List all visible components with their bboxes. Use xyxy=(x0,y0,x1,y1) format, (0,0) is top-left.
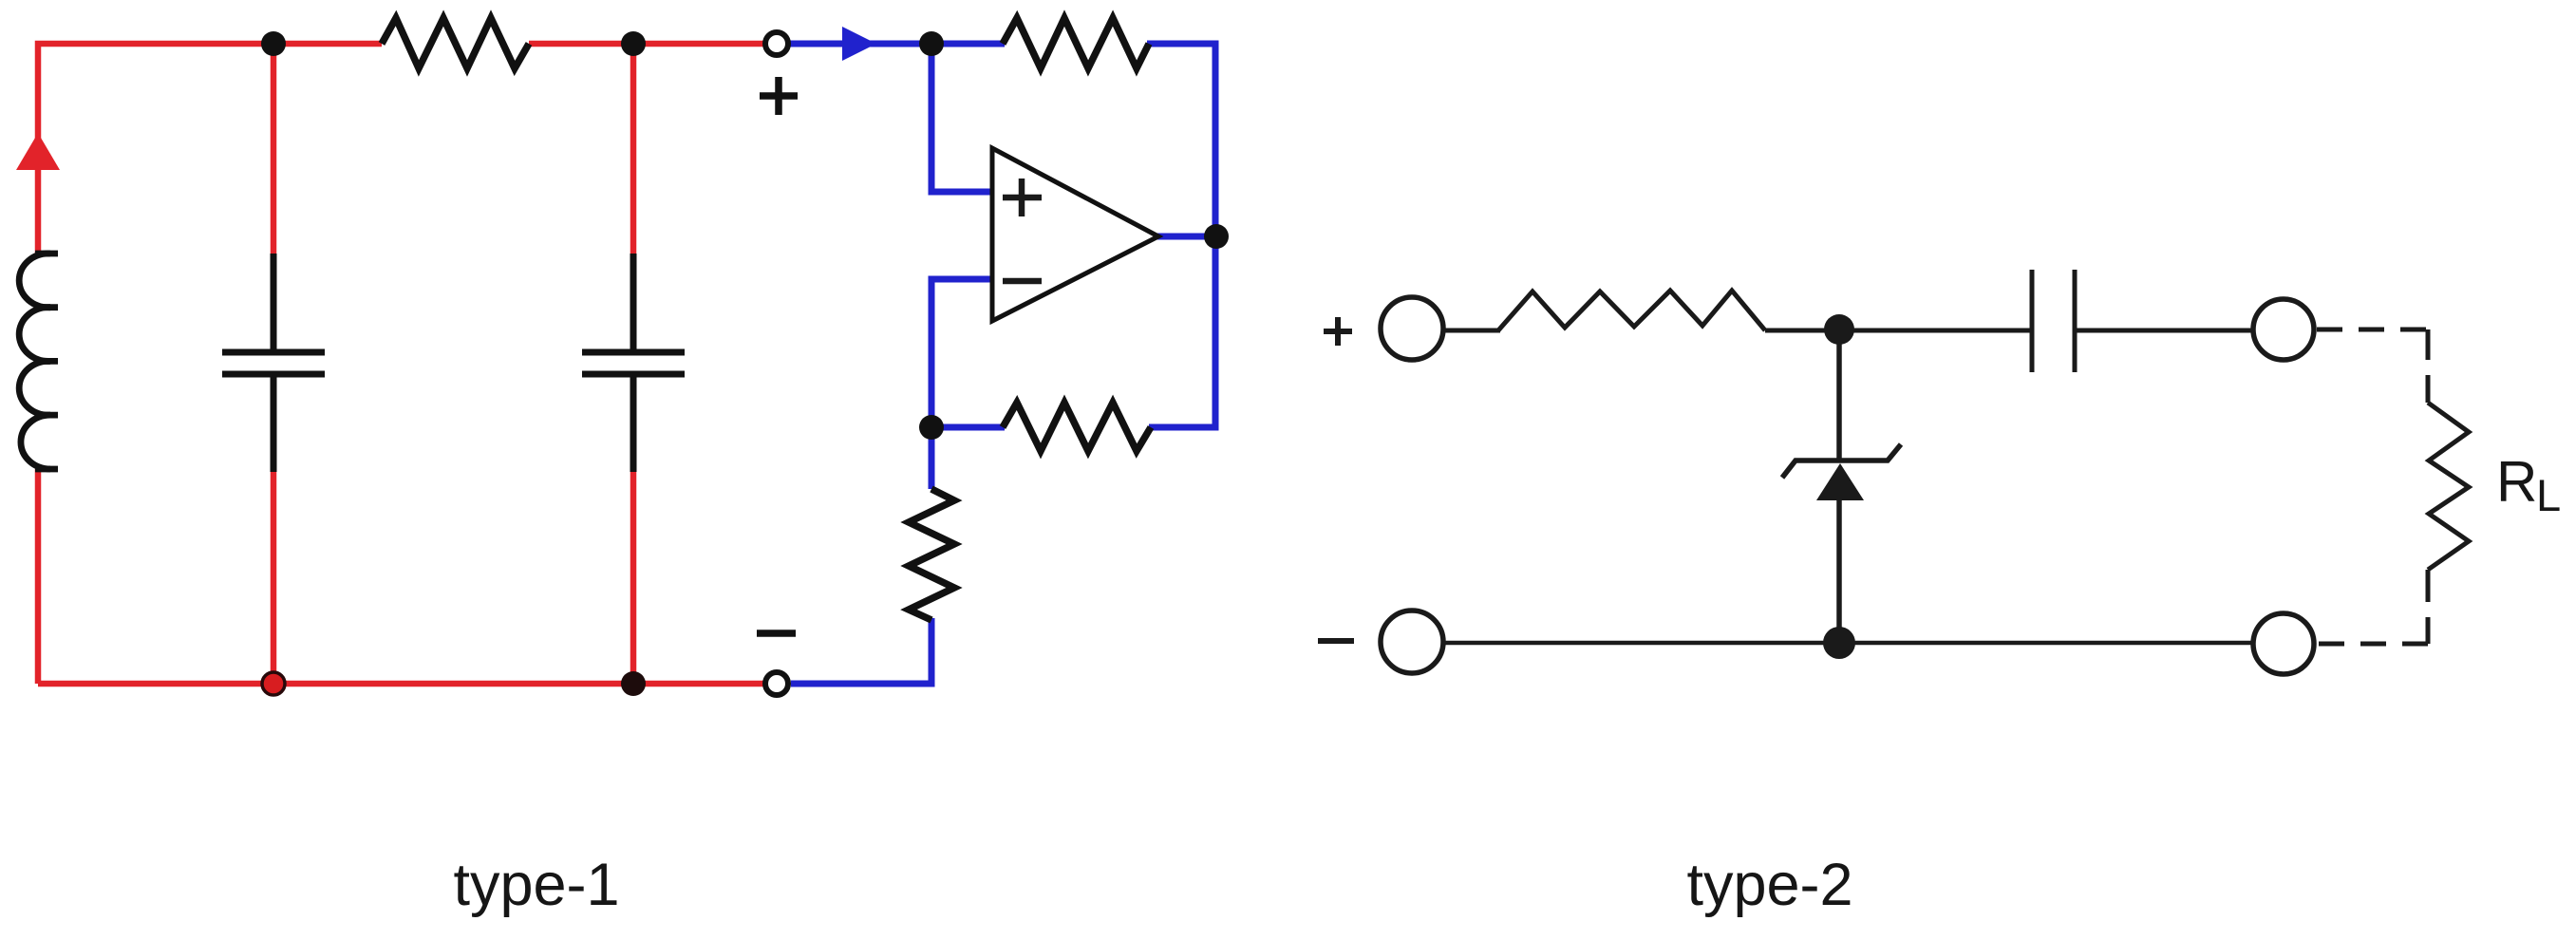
node: zener top junction dot xyxy=(1824,314,1854,345)
wire: type-1 red left rail lower xyxy=(35,469,42,684)
resistor R1 (top rail) xyxy=(382,18,529,68)
label + at type-2 input xyxy=(1324,317,1352,346)
junction node top of C1 xyxy=(261,31,286,56)
terminal output bottom (open circle) xyxy=(2253,613,2314,674)
wire: blue right rail of op-amp loop xyxy=(1147,44,1215,427)
capacitor C (type-2) right plate xyxy=(2073,270,2078,372)
dashed wire vertical lower xyxy=(2426,570,2431,644)
wire from resistor to capacitor xyxy=(1765,329,2030,333)
svg-text:R: R xyxy=(2496,450,2537,514)
zener diode D1 anode triangle xyxy=(1816,463,1864,500)
op-amp + input marking xyxy=(1003,179,1042,216)
op-amp - input marking xyxy=(1003,278,1042,285)
terminal - input (type-2, open circle) xyxy=(1381,611,1443,673)
inductor L1 on left rail xyxy=(19,254,58,469)
wire: type-2 bottom rail xyxy=(1443,641,2253,646)
resistor R (series, type-2) xyxy=(1498,291,1765,330)
label + at output terminal xyxy=(760,77,798,115)
current arrow on left rail (red, up) xyxy=(16,133,60,170)
label - at output terminal xyxy=(757,630,796,637)
svg-text:L: L xyxy=(2536,470,2561,520)
capacitor C1 xyxy=(222,254,325,472)
wire from + terminal to resistor R xyxy=(1443,329,1500,333)
wire: blue op-amp - input to node B xyxy=(931,279,993,427)
dashed wire to load, bottom xyxy=(2317,642,2428,647)
svg-text:type-1: type-1 xyxy=(453,852,619,918)
wire: type-1 red top rail right segment xyxy=(529,41,765,47)
node B junction dot xyxy=(919,415,944,440)
wire: blue node B to middle resistor xyxy=(931,424,1005,431)
wire: type-1 red bottom rail xyxy=(38,681,765,687)
resistor Rg (vertical) xyxy=(909,489,954,620)
junction node top of C2 xyxy=(621,31,646,56)
wire from capacitor to right top terminal xyxy=(2077,329,2253,333)
wire: blue node A to feedback resistor xyxy=(931,41,1005,47)
svg-text:type-2: type-2 xyxy=(1686,852,1852,918)
wire: type-1 red top rail left segment xyxy=(38,44,382,254)
dashed wire to load, top xyxy=(2317,328,2428,332)
zener diode D1 cathode bar xyxy=(1782,444,1901,478)
junction node bottom of C2 xyxy=(621,671,646,696)
terminal - (open circle) xyxy=(765,672,788,695)
capacitor C2 xyxy=(582,254,685,472)
resistor Rm (middle) xyxy=(1003,403,1151,451)
op-amp U1 xyxy=(992,148,1158,321)
resistor Rf (feedback, top) xyxy=(1003,18,1149,68)
resistor RL (load) xyxy=(2428,403,2469,570)
label - at type-2 input xyxy=(1318,638,1354,644)
node A junction dot xyxy=(919,31,944,56)
terminal + input (type-2, open circle) xyxy=(1381,297,1443,360)
terminal output top (open circle) xyxy=(2253,299,2314,360)
wire: zener branch lower xyxy=(1836,500,1842,642)
wire: red branch of capacitor C1 xyxy=(271,44,277,256)
junction node bottom of C1 (red) xyxy=(262,672,285,695)
wire: blue node A down to op-amp + input xyxy=(931,44,993,192)
wire: blue op-amp output xyxy=(1156,234,1217,240)
wire: zener branch upper xyxy=(1836,330,1842,460)
wire: blue input wire from + terminal to node A xyxy=(789,41,931,47)
node: zener bottom junction dot xyxy=(1823,627,1855,659)
terminal + (open circle) xyxy=(765,32,788,55)
op-amp output junction dot xyxy=(1204,224,1229,249)
blue current arrow xyxy=(842,27,876,61)
wire: blue node B down to vertical resistor xyxy=(929,427,935,489)
wire: red branch of capacitor C2 xyxy=(630,44,637,256)
wire: blue from vertical resistor to - terminal xyxy=(791,618,931,684)
capacitor C (type-2) left plate xyxy=(2030,270,2035,372)
dashed wire vertical upper xyxy=(2426,329,2431,403)
